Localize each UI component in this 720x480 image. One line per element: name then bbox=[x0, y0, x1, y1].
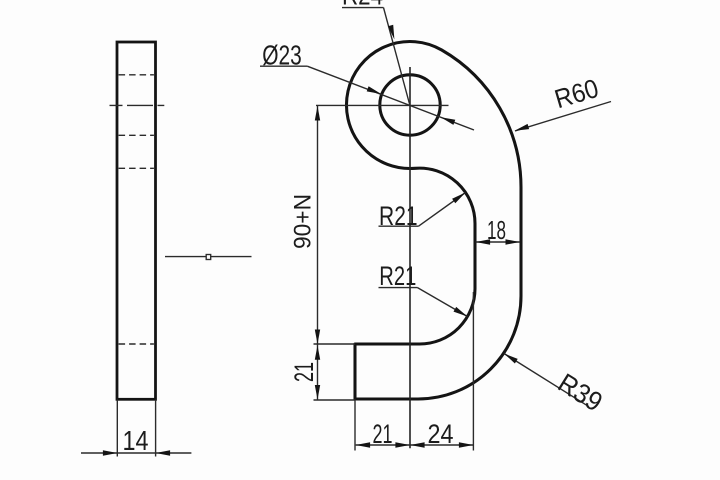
dimension 14 arrow left bbox=[103, 450, 118, 455]
dimension 90+N and 21 vertical line bbox=[317, 105, 319, 400]
label R24 leader bbox=[384, 8, 410, 105]
svg-text:90+N: 90+N bbox=[290, 194, 317, 249]
label R60 leader bbox=[515, 102, 611, 132]
dimension 90+N arrow bottom bbox=[315, 330, 320, 345]
center mark line between views bbox=[165, 256, 252, 258]
side view rectangle bbox=[117, 42, 156, 399]
dimension 14 line bbox=[81, 452, 191, 454]
svg-text:24: 24 bbox=[428, 419, 454, 449]
label R21 upper shelf bbox=[379, 225, 419, 227]
svg-text:18: 18 bbox=[487, 215, 506, 245]
dimension 21 arrow right bbox=[395, 442, 410, 447]
label Ø23 shelf bbox=[260, 65, 307, 67]
label Ø23 arrow lower-right bbox=[441, 117, 456, 125]
hidden line disc bottom projection bbox=[119, 167, 154, 169]
dimension 21/24 line bbox=[356, 444, 474, 446]
label R39 arrow bbox=[504, 354, 518, 364]
horizontal centerline of hole bbox=[316, 104, 449, 106]
side view horizontal centerline bbox=[110, 104, 165, 106]
center mark square bbox=[206, 255, 211, 260]
dimension 21/24 extension line right bbox=[472, 292, 474, 451]
svg-text:21: 21 bbox=[373, 419, 393, 449]
front view outline of hook bbox=[346, 42, 521, 399]
label R21 upper leader bbox=[419, 193, 466, 227]
label R24 arrow bbox=[388, 25, 394, 40]
svg-text:R60: R60 bbox=[551, 73, 602, 114]
dimension 90+N arrow top bbox=[315, 106, 320, 121]
label Ø23 leader bbox=[307, 66, 474, 130]
extension line at foot top bbox=[314, 343, 356, 345]
label R21 lower shelf bbox=[379, 287, 418, 289]
label R21 lower arrow bbox=[454, 307, 468, 317]
dimension 18 arrow left bbox=[476, 239, 491, 244]
label R60 arrow bbox=[515, 124, 530, 131]
svg-text:R21: R21 bbox=[379, 261, 416, 291]
label R24 shelf bbox=[342, 7, 384, 9]
svg-text:14: 14 bbox=[123, 425, 149, 456]
dimension 21/24 extension line left bbox=[354, 400, 356, 451]
dimension 21 arrow left bbox=[356, 442, 371, 447]
vertical centerline of front view bbox=[409, 67, 411, 448]
dimension 14 arrow right bbox=[156, 450, 171, 455]
hole circle Ø23 bbox=[380, 75, 440, 135]
dimension 14 extension line left bbox=[116, 400, 118, 457]
extension line at foot bottom bbox=[314, 399, 356, 401]
hidden line hole top projection bbox=[119, 74, 154, 76]
svg-text:21: 21 bbox=[289, 362, 319, 382]
dimension 18 line bbox=[476, 241, 521, 243]
dimension 24 arrow right bbox=[459, 442, 474, 447]
hidden line foot top projection bbox=[119, 343, 154, 345]
label R39 leader bbox=[504, 354, 589, 407]
svg-text:R24: R24 bbox=[342, 0, 383, 11]
label R21 upper arrow bbox=[452, 193, 465, 204]
hidden line hole bottom projection bbox=[119, 134, 154, 136]
dimension 21 vertical arrow bottom bbox=[315, 385, 320, 400]
dimension 24 arrow left bbox=[410, 442, 425, 447]
label R21 lower leader bbox=[418, 288, 468, 317]
dimension 14 extension line right bbox=[155, 400, 157, 457]
label Ø23 arrow upper-left bbox=[367, 86, 382, 94]
svg-text:R39: R39 bbox=[553, 368, 608, 418]
dimension 21 vertical arrow top bbox=[315, 345, 320, 360]
dimension 18 arrow right bbox=[506, 239, 521, 244]
